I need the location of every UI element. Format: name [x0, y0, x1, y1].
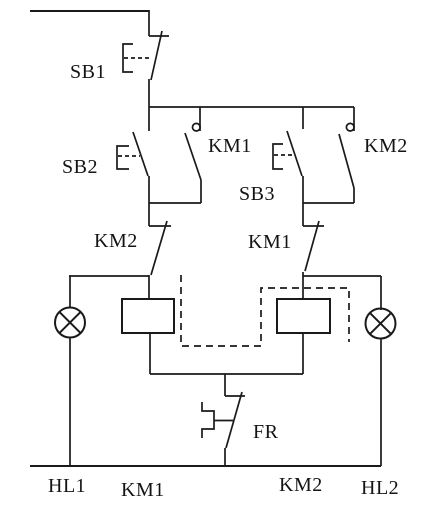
wire tap to lamp HL2: [303, 275, 381, 277]
wire bottom supply rail: [30, 465, 381, 467]
svg-text:KM2: KM2: [279, 474, 323, 496]
svg-text:KM2: KM2: [94, 230, 138, 252]
svg-text:FR: FR: [253, 421, 279, 443]
wire FR bottom lead: [224, 448, 226, 466]
svg-text:SB3: SB3: [239, 183, 275, 205]
lamp HL1: [55, 276, 85, 466]
mechanical interlock linkage (dashed): [181, 275, 349, 346]
pushbutton SB1 (NC stop button): [123, 31, 169, 80]
wire top rail to SB1: [148, 10, 150, 36]
wire join of left parallel pair: [149, 202, 201, 204]
svg-text:HL2: HL2: [361, 477, 399, 499]
svg-text:KM2: KM2: [364, 135, 408, 157]
coil KM1: [122, 299, 174, 333]
wire coil bottoms join: [150, 373, 303, 375]
wire tap to lamp HL1: [69, 275, 149, 277]
contact KM1 auxiliary (NO self-hold): [185, 107, 201, 203]
wire SB3 lower lead: [302, 176, 304, 203]
wire top supply rail: [30, 10, 149, 12]
wire join of right parallel pair: [303, 202, 354, 204]
svg-text:HL1: HL1: [48, 475, 86, 497]
pushbutton SB2 (NO start, left branch): [117, 107, 149, 176]
svg-text:KM1: KM1: [208, 135, 252, 157]
contact KM2 NC (interlock, left): [149, 221, 171, 275]
contact KM1 NC (interlock, right): [303, 221, 324, 271]
contact KM2 auxiliary (NO self-hold): [339, 107, 354, 203]
wire SB1 to bus node A: [148, 79, 150, 107]
wire KM1 interlock to coil KM2: [302, 272, 304, 299]
wire coil KM2 bottom lead: [302, 333, 304, 374]
wire bus (node A horizontal): [149, 106, 354, 108]
wire KM2 interlock to coil KM1: [148, 275, 150, 299]
svg-text:KM1: KM1: [121, 479, 165, 501]
svg-text:SB2: SB2: [62, 156, 98, 178]
thermal overload relay FR (NC contact with heater element): [202, 392, 245, 448]
wire left pair to KM2 interlock: [148, 203, 150, 226]
wire right pair to KM1 interlock: [302, 203, 304, 226]
svg-text:KM1: KM1: [248, 231, 292, 253]
lamp HL2: [366, 276, 396, 466]
wire SB2 lower lead: [148, 176, 150, 203]
wire join to FR: [224, 374, 226, 396]
svg-text:SB1: SB1: [70, 61, 106, 83]
wire coil KM1 bottom lead: [149, 333, 151, 374]
coil KM2: [277, 299, 330, 333]
pushbutton SB3 (NO start, right branch): [273, 107, 303, 176]
